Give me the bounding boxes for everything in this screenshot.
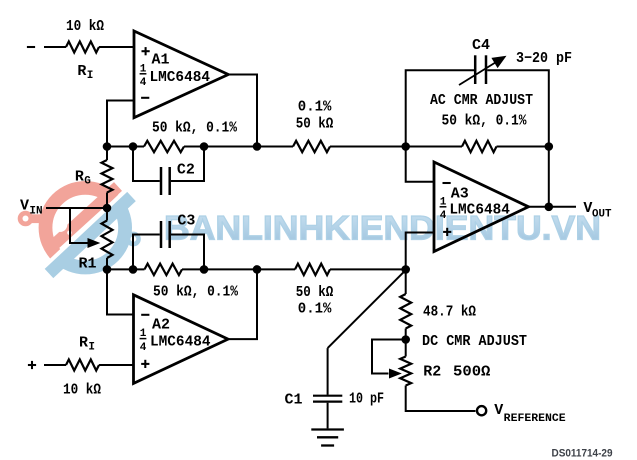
wire	[406, 386, 476, 412]
op-amp A2	[134, 295, 229, 384]
wire	[405, 340, 407, 357]
label DC CMR ADJUST	[422, 333, 527, 350]
op-amp A3	[434, 162, 529, 252]
op-amp A1	[134, 31, 228, 118]
wire	[106, 193, 108, 209]
wire C2 left leg	[133, 147, 160, 182]
label RI bottom	[79, 335, 95, 354]
wire	[106, 208, 108, 221]
node A3 output	[545, 203, 554, 212]
wire	[327, 348, 329, 395]
wire C4 to output	[548, 147, 550, 207]
capacitor C1	[313, 396, 342, 402]
wire C2 right leg	[171, 147, 204, 182]
wire	[330, 268, 406, 270]
node C3 left	[129, 265, 138, 274]
label 0.1% mid top	[298, 99, 333, 116]
potentiometer R2 500 Ohm	[400, 357, 411, 386]
arrow R2 wiper	[389, 369, 402, 379]
label RI top	[77, 63, 93, 82]
resistor 48.7 kOhm	[400, 294, 411, 329]
label AC CMR ADJUST	[430, 92, 533, 109]
node A2 output	[253, 265, 262, 274]
resistor 50k 0.1% feedback A2	[145, 264, 183, 275]
node A1 output	[253, 142, 262, 151]
A1 fraction 1/4	[140, 64, 147, 90]
A3 fraction 1/4	[440, 197, 447, 222]
label VOUT	[583, 200, 611, 221]
label 10 pF	[349, 391, 384, 408]
input terminal minus (top)	[27, 46, 35, 48]
wire C3 right leg	[171, 235, 204, 270]
resistor RI bottom 10 kOhm	[66, 360, 99, 371]
label C2	[177, 162, 195, 179]
node R1 bottom	[103, 265, 112, 274]
label VIN	[20, 198, 43, 218]
A1 inverting pin -	[141, 97, 149, 99]
A2 fraction 1/4	[140, 328, 147, 354]
node RG top	[103, 142, 112, 151]
A1 designator	[152, 52, 170, 69]
label 50k mid bottom	[296, 284, 334, 301]
label 50k mid top	[296, 116, 334, 133]
wire A1 feedback to inverting input	[107, 101, 134, 147]
terminal VREFERENCE circle	[477, 406, 486, 415]
label 48.7 kOhm	[423, 304, 476, 321]
label 0.1% mid bottom	[298, 301, 333, 318]
wire	[99, 364, 134, 366]
resistor 50k series top	[293, 141, 330, 152]
A3 designator	[451, 186, 469, 203]
wire R1 wiper	[70, 208, 90, 243]
node A3 inverting branch	[401, 142, 410, 151]
label C4	[472, 37, 490, 54]
wire A3 output	[529, 206, 577, 208]
wire A3 inverting input	[406, 147, 434, 182]
arrow C4 variable	[459, 56, 507, 85]
resistor 50k 0.1% feedback A1	[144, 141, 184, 152]
wire	[44, 46, 66, 48]
arrow R1 wiper	[88, 238, 101, 248]
wire	[107, 268, 145, 270]
wire C4 box right	[487, 70, 549, 146]
label C1	[285, 392, 303, 409]
A2 inverting pin -	[141, 314, 149, 316]
wire	[497, 146, 549, 148]
label RG	[75, 169, 91, 188]
node C2 right	[200, 142, 209, 151]
input terminal plus (bottom)	[28, 361, 36, 369]
label 3-20 pF	[516, 50, 572, 67]
wire	[44, 364, 66, 366]
label 500 Ohm	[453, 364, 490, 381]
wire	[330, 146, 462, 148]
wire	[327, 403, 329, 429]
A3 inverting pin -	[443, 182, 451, 184]
wire	[107, 146, 144, 148]
wire	[405, 269, 407, 294]
potentiometer R1	[102, 221, 113, 259]
label VREFERENCE	[494, 402, 566, 425]
node C4 right	[545, 142, 554, 151]
wire C4 box left	[406, 70, 474, 146]
wire	[106, 258, 108, 269]
wire diagonal to C1	[328, 270, 406, 348]
A3 part number LMC6484	[449, 202, 510, 219]
label 50k 0.1% row2	[153, 284, 239, 301]
wire A2 output	[228, 269, 257, 339]
wire R2 wiper	[372, 340, 406, 374]
label 10 kOhm top	[66, 18, 104, 35]
resistor RI top 10 kOhm	[66, 42, 99, 53]
node DC CMR wiper	[401, 335, 410, 344]
ground	[311, 430, 344, 446]
wire	[106, 147, 108, 161]
wire	[99, 46, 134, 48]
node C3 right	[200, 265, 209, 274]
wire	[405, 329, 407, 340]
wire	[184, 146, 293, 148]
label 50k 0.1% AC	[442, 113, 528, 130]
label R1	[79, 256, 97, 273]
A2 noninverting pin +	[141, 360, 149, 368]
label 50k 0.1% row1	[152, 120, 238, 137]
node RG R1 junction	[103, 204, 112, 213]
watermark logo	[18, 182, 141, 278]
label R2	[423, 364, 441, 381]
wire R1 to A2 inverting input	[107, 269, 134, 314]
label C3	[177, 212, 195, 229]
A2 designator	[152, 316, 170, 333]
wire	[182, 268, 295, 270]
label 10 kOhm bottom	[63, 382, 101, 399]
node C2 left	[129, 142, 138, 151]
A1 noninverting pin +	[142, 47, 150, 55]
wire A3 noninverting input	[406, 233, 434, 270]
capacitor C4 variable	[475, 55, 486, 84]
A2 part number LMC6484	[150, 333, 211, 350]
A1 part number LMC6484	[150, 69, 211, 86]
wire C3 left leg	[133, 235, 160, 270]
capacitor C2	[161, 167, 170, 195]
resistor 50k series bottom	[295, 264, 330, 275]
wire VIN lead	[46, 207, 107, 209]
resistor RG	[102, 160, 113, 193]
label DS011714-29	[552, 448, 613, 460]
wire A1 output	[228, 75, 257, 147]
A3 noninverting pin +	[443, 228, 451, 236]
capacitor C3	[161, 221, 170, 248]
node A3 noninverting branch	[401, 265, 410, 274]
svg-text:BANLINHKIENDIENTU.VN: BANLINHKIENDIENTU.VN	[164, 210, 601, 248]
resistor 50k 0.1% AC CMR	[462, 141, 497, 152]
